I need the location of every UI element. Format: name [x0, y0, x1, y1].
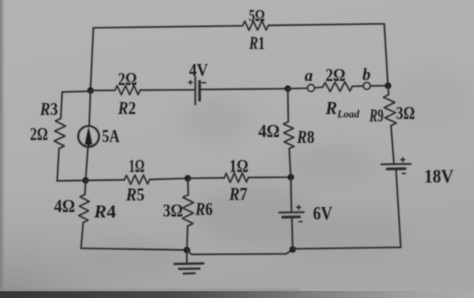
wire (R6 top lead) — [187, 178, 190, 195]
svg-text:5A: 5A — [102, 126, 120, 146]
battery V1 (4V) negative plate — [198, 81, 201, 100]
wire (R_Load to node b) — [352, 85, 363, 87]
wire (upper net: junction to R2) — [91, 89, 116, 91]
junction dot (R8 top) — [285, 85, 292, 92]
svg-text:R9: R9 — [369, 106, 384, 126]
node b terminal (open circle) — [363, 83, 370, 90]
svg-text:R3: R3 — [39, 99, 58, 119]
svg-text:R2: R2 — [117, 98, 136, 118]
wire (middle net: R7 to R8 junction) — [248, 176, 290, 178]
wire (R8 top lead) — [287, 89, 290, 122]
wire (R3 bottom lead) — [57, 149, 59, 181]
ground symbol — [175, 262, 204, 265]
svg-text:R7: R7 — [228, 184, 247, 204]
wire (bottom net: left corner to ground junction) — [81, 248, 187, 250]
svg-text:1Ω: 1Ω — [129, 156, 145, 176]
wire (top net: top-left corner up from node) — [91, 28, 94, 89]
svg-text:R6: R6 — [195, 199, 213, 219]
wire (middle net: junction to R5) — [86, 179, 125, 182]
battery V3 (18V) positive plate — [381, 163, 410, 165]
node junction dot (R2/R3/current source top) — [87, 87, 94, 94]
wire (current source bottom lead) — [86, 147, 88, 181]
wire (R9 bottom to 18V battery) — [391, 126, 394, 164]
junction dot (R6 top) — [185, 175, 192, 182]
wire (current source top lead) — [89, 91, 90, 127]
battery V3 plus sign — [401, 159, 405, 161]
battery V2 (6V) negative plate — [283, 215, 300, 218]
svg-text:4V: 4V — [189, 60, 208, 80]
wire (upper net: 4V battery to R8 junction) — [201, 88, 288, 91]
wire (middle net: left corner to junction) — [57, 179, 85, 182]
wire (bottom net: 6V junction to right corner) — [293, 247, 401, 249]
resistor R5 — [124, 175, 149, 184]
svg-text:2Ω: 2Ω — [118, 69, 137, 89]
battery V2 minus sign — [299, 221, 302, 223]
current source arrow (up) — [87, 143, 89, 146]
wire (6V battery top lead) — [290, 177, 293, 211]
wire (node b to right column junction) — [370, 85, 388, 87]
svg-text:R4: R4 — [93, 201, 116, 221]
svg-text:5Ω: 5Ω — [249, 6, 265, 25]
resistor R1 — [243, 21, 269, 30]
svg-text:b: b — [362, 65, 370, 84]
resistor R7 — [224, 173, 248, 182]
node a terminal (open circle) — [308, 85, 315, 92]
wire (bottom net: sagging segment ground to 6V) — [187, 249, 293, 254]
wire (stub from junction to R3 corner) — [62, 90, 90, 93]
wire (stub junction to node a) — [288, 87, 308, 90]
svg-text:R1: R1 — [248, 33, 264, 53]
junction dot (R8 bottom / 6V top) — [288, 174, 295, 181]
svg-text:3Ω: 3Ω — [396, 103, 415, 123]
wire (18V battery to bottom corner) — [396, 170, 401, 248]
resistor R2 — [115, 86, 140, 95]
current source I1 (5A) circle — [78, 126, 99, 147]
wire (ground stub) — [186, 250, 188, 263]
junction dot (ground node) — [184, 247, 191, 254]
resistor R9 — [383, 95, 396, 126]
wire (R3 top lead) — [61, 92, 63, 119]
battery V1 plus sign — [189, 81, 193, 83]
battery V1 (4V) positive plate — [194, 77, 196, 104]
wire (R6 bottom lead) — [186, 226, 189, 250]
battery V1 minus sign — [202, 82, 206, 84]
svg-text:2Ω: 2Ω — [326, 65, 346, 85]
battery V3 (18V) negative plate — [387, 167, 405, 170]
svg-text:1Ω: 1Ω — [229, 156, 248, 176]
wire (right column: top corner down to node b junction) — [384, 24, 388, 86]
wire (middle net: R5 to R6 junction) — [150, 178, 188, 179]
battery V3 minus sign — [402, 172, 405, 174]
svg-text:R5: R5 — [125, 184, 144, 204]
junction dot (right column, node b net) — [385, 82, 392, 89]
resistor R3 — [54, 119, 65, 149]
wire (upper net: R2 to 4V battery) — [140, 89, 194, 91]
wire (R8 bottom lead) — [289, 149, 291, 178]
svg-text:6V: 6V — [313, 204, 333, 225]
svg-text:4Ω: 4Ω — [258, 121, 280, 141]
svg-text:a: a — [305, 66, 313, 85]
junction dot (middle wire / R4 top) — [82, 177, 89, 184]
svg-text:18V: 18V — [424, 167, 454, 188]
wire (top horizontal, right segment from R1) — [268, 24, 384, 26]
wire (R4 bottom lead) — [81, 223, 83, 249]
battery V2 plus sign — [297, 206, 301, 208]
wire (6V battery bottom lead) — [291, 218, 294, 250]
wire (middle net: R6 junction to R7) — [188, 177, 224, 179]
resistor R_Load — [323, 82, 353, 92]
wire (top horizontal, left segment to R1) — [93, 26, 242, 28]
junction dot (6V bottom) — [289, 246, 296, 253]
battery V2 (6V) positive plate — [279, 211, 304, 213]
wire (node a to R_Load) — [314, 86, 322, 89]
svg-text:3Ω: 3Ω — [163, 201, 183, 221]
wire (R9 top lead) — [387, 86, 390, 95]
resistor R4 — [79, 195, 90, 223]
resistor R6 — [182, 195, 193, 226]
svg-text:R8: R8 — [296, 127, 314, 147]
svg-text:4Ω: 4Ω — [54, 196, 75, 216]
resistor R8 — [284, 122, 295, 149]
wire (R4 top lead) — [84, 180, 87, 194]
svg-text:2Ω: 2Ω — [30, 124, 48, 144]
